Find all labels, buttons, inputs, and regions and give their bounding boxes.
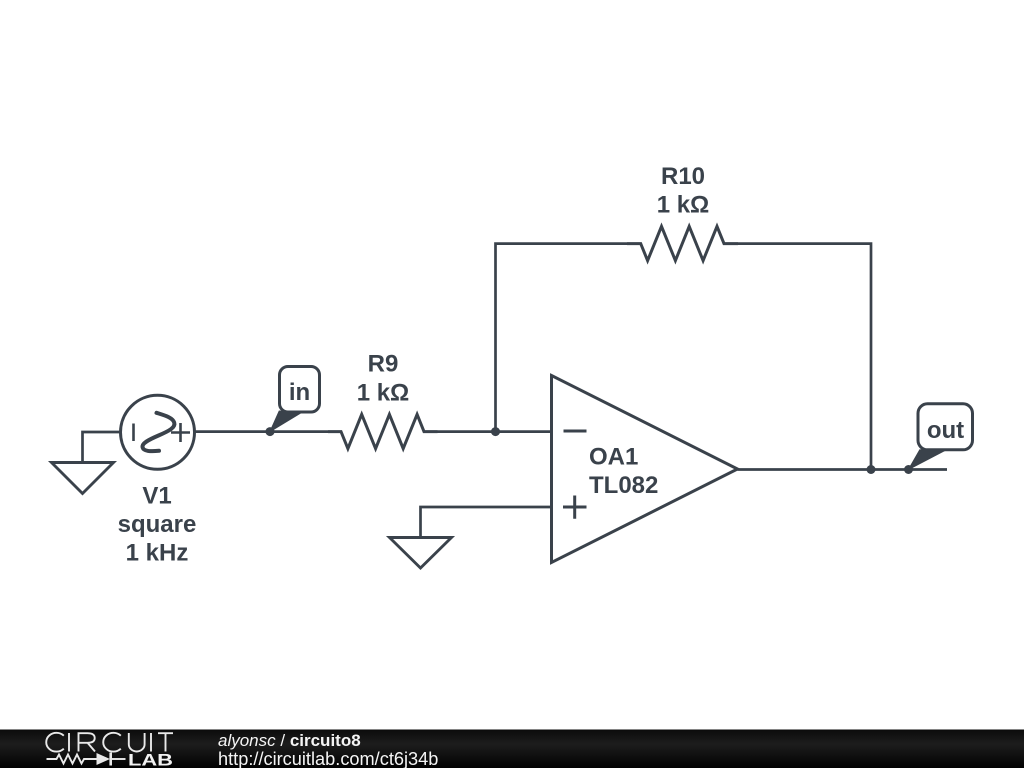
node feedback junction (dot) bbox=[491, 427, 500, 436]
wire: op-amp output bbox=[738, 468, 948, 471]
svg-text:out: out bbox=[927, 417, 964, 444]
node output junction (dot) bbox=[867, 465, 876, 474]
footer bar bbox=[0, 730, 1024, 768]
svg-text:1 kΩ: 1 kΩ bbox=[657, 192, 710, 219]
wire: V1 negative lead to ground bbox=[83, 432, 120, 462]
ground GND2 (at op-amp + input) bbox=[390, 538, 452, 569]
svg-text:http://circuitlab.com/ct6j34b: http://circuitlab.com/ct6j34b bbox=[218, 749, 438, 768]
voltage source V1 (square wave) bbox=[121, 395, 195, 469]
node out (dot) bbox=[904, 465, 913, 474]
label V1 waveform bbox=[118, 511, 197, 538]
footer author line bbox=[218, 731, 361, 750]
svg-text:R10: R10 bbox=[661, 163, 705, 190]
logo LAB wordmark bbox=[128, 751, 173, 768]
label V1 frequency bbox=[126, 540, 189, 567]
node in (junction dot) bbox=[266, 427, 275, 436]
flag out bbox=[909, 404, 973, 470]
wire: V1 to R9 bbox=[195, 430, 329, 433]
svg-text:OA1: OA1 bbox=[589, 444, 638, 471]
wire: feedback left riser bbox=[496, 244, 628, 432]
svg-text:in: in bbox=[289, 379, 310, 406]
svg-text:V1: V1 bbox=[142, 483, 171, 510]
label R10 name bbox=[661, 163, 705, 190]
label R10 value bbox=[657, 192, 710, 219]
svg-text:1 kHz: 1 kHz bbox=[126, 540, 189, 567]
svg-text:1 kΩ: 1 kΩ bbox=[357, 380, 410, 407]
logo resistor-diode doodle bbox=[47, 753, 126, 766]
label OA1 part bbox=[589, 472, 658, 499]
footer url line bbox=[218, 749, 438, 768]
label R9 name bbox=[368, 351, 399, 378]
svg-text:alyonsc / circuito8: alyonsc / circuito8 bbox=[218, 731, 361, 750]
svg-text:R9: R9 bbox=[368, 351, 399, 378]
wire: feedback right riser to output bbox=[738, 244, 871, 470]
label V1 name bbox=[142, 483, 171, 510]
svg-text:LAB: LAB bbox=[128, 751, 173, 768]
svg-text:TL082: TL082 bbox=[589, 472, 658, 499]
label R9 value bbox=[357, 380, 410, 407]
wire: R9 to op-amp inverting input bbox=[438, 430, 552, 433]
flag in bbox=[270, 367, 320, 432]
wire: op-amp non-inverting input to ground bbox=[421, 507, 552, 537]
svg-text:square: square bbox=[118, 511, 197, 538]
resistor R9 bbox=[328, 414, 438, 448]
label OA1 name bbox=[589, 444, 638, 471]
op-amp OA1 bbox=[552, 376, 738, 563]
logo CIRCUIT wordmark bbox=[46, 733, 173, 752]
resistor R10 bbox=[627, 226, 738, 260]
ground GND1 (at V1) bbox=[52, 463, 114, 494]
